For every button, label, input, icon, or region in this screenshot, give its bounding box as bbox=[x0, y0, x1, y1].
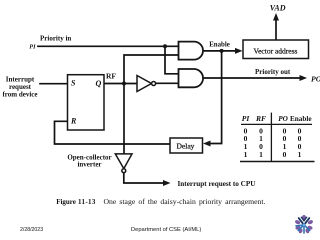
logo college emblem bbox=[294, 215, 313, 234]
svg-text:Q: Q bbox=[96, 79, 102, 88]
svg-text:Enable: Enable bbox=[209, 41, 230, 48]
truth table header bbox=[242, 114, 312, 123]
wire interrupt request to CPU bbox=[124, 173, 165, 183]
flip-flop (SR latch) box bbox=[68, 75, 105, 130]
delay box bbox=[170, 138, 203, 153]
svg-text:PI: PI bbox=[29, 43, 36, 50]
label Interrupt request from device bbox=[2, 76, 37, 99]
wire Enable output bbox=[203, 50, 236, 52]
open-collector inverter bbox=[115, 154, 132, 173]
svg-text:PO: PO bbox=[278, 115, 288, 123]
truth table header rule bbox=[241, 123, 312, 125]
svg-text:Interrupt request to CPU: Interrupt request to CPU bbox=[178, 180, 257, 188]
wire inverter output to AND gate A2 bbox=[156, 82, 179, 84]
wire Enable vertical down to Delay bbox=[210, 51, 222, 144]
svg-text:1: 1 bbox=[244, 150, 248, 159]
svg-text:PI: PI bbox=[242, 114, 251, 123]
node PI tap junction bbox=[163, 44, 167, 48]
svg-text:11-13: 11-13 bbox=[78, 198, 96, 206]
and gate A2 (Priority out) bbox=[179, 69, 204, 87]
svg-text:S: S bbox=[71, 79, 76, 88]
inverter (RF complement) bbox=[137, 76, 156, 92]
caption Figure 11-13 bbox=[56, 197, 265, 206]
truth table bbox=[240, 113, 315, 162]
wire PO priority out bbox=[203, 77, 301, 79]
arrowhead VAD up bbox=[273, 13, 279, 21]
arrowhead interrupt to CPU bbox=[163, 180, 171, 186]
and gate A1 (Enable) bbox=[179, 42, 204, 60]
wire PI tap down to AND gate A2 bbox=[165, 46, 179, 74]
label Open-collector inverter bbox=[67, 154, 111, 169]
wire Q output RF bbox=[104, 83, 137, 85]
svg-text:2/28/2023: 2/28/2023 bbox=[20, 227, 43, 233]
svg-text:Priority out: Priority out bbox=[255, 68, 291, 76]
svg-text:Department of CSE (AI/ML): Department of CSE (AI/ML) bbox=[131, 227, 201, 233]
svg-text:1: 1 bbox=[298, 150, 302, 159]
svg-text:PO: PO bbox=[311, 74, 320, 83]
svg-text:R: R bbox=[70, 117, 77, 126]
svg-text:One stage of the daisy-chain p: One stage of the daisy-chain priority ar… bbox=[104, 197, 266, 206]
svg-text:RF: RF bbox=[255, 114, 266, 123]
wire S input from device bbox=[40, 83, 68, 85]
svg-text:Priority in: Priority in bbox=[40, 35, 71, 43]
wire RF riser to AND gate A1 upper path bbox=[124, 55, 179, 84]
node Enable junction bbox=[220, 49, 224, 53]
wire PI (Priority in) horizontal bbox=[38, 45, 179, 47]
svg-text:inverter: inverter bbox=[77, 161, 101, 169]
vector address box bbox=[243, 40, 309, 59]
arrowhead PO right bbox=[300, 75, 308, 81]
svg-text:from device: from device bbox=[2, 91, 37, 99]
truth table rows bbox=[244, 126, 302, 159]
svg-text:RF: RF bbox=[106, 72, 116, 81]
truth table column rule bbox=[270, 113, 272, 162]
arrowhead Enable into vector address box bbox=[235, 48, 243, 54]
svg-text:0: 0 bbox=[283, 150, 287, 159]
svg-text:Figure: Figure bbox=[56, 198, 76, 206]
svg-text:Delay: Delay bbox=[177, 142, 195, 151]
wire VAD up from vector address box bbox=[275, 20, 277, 40]
arrowhead into Delay box bbox=[203, 141, 211, 147]
truth table bottom rule bbox=[240, 161, 315, 163]
svg-text:1: 1 bbox=[259, 150, 263, 159]
svg-text:VAD: VAD bbox=[270, 4, 286, 13]
svg-text:Enable: Enable bbox=[290, 115, 312, 123]
svg-text:Vector address: Vector address bbox=[254, 47, 298, 56]
node RF junction bbox=[122, 81, 126, 85]
wire RF down to open-collector inverter bbox=[123, 84, 125, 155]
wire R input from delay bbox=[55, 121, 171, 144]
